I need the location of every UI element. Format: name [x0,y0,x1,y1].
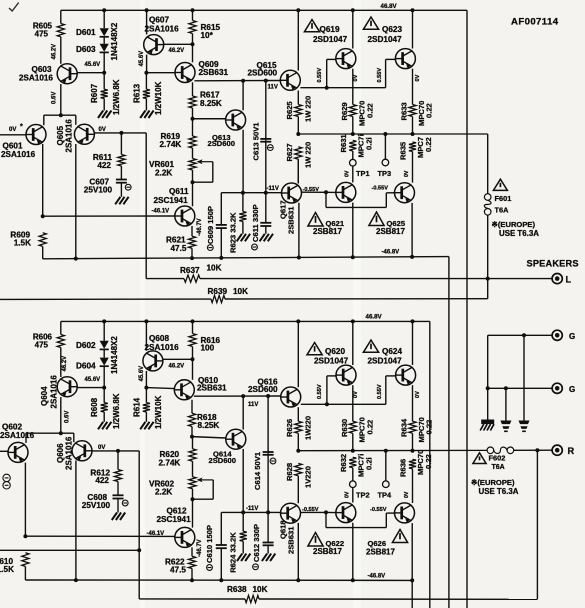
svg-text:0.55V: 0.55V [377,68,383,83]
svg-text:*: * [20,124,23,131]
wire diode string to R607 [103,52,105,89]
wire Q608 emitter down [145,371,147,388]
svg-text:1/2W10K: 1/2W10K [154,81,163,115]
svg-text:2SD1047: 2SD1047 [314,357,349,366]
svg-text:2SB817: 2SB817 [366,548,395,557]
resistor R628 [295,463,302,475]
wire Q604 emitter down [60,397,62,433]
svg-text:F602: F602 [489,454,506,463]
transistor Q617 [282,183,302,203]
resistor R639 [211,295,225,302]
wire Q609 emitter to Q615 base [195,80,281,82]
ground chassis big [481,420,494,425]
wire R639 to output junction [225,298,488,300]
transistor Q601 [26,125,46,145]
svg-text:R624 33.2K: R624 33.2K [229,532,238,573]
resistor R638 [245,595,259,602]
wire Q621 emitter down [352,203,354,258]
wire Q622 base [326,511,336,513]
warning triangle Q622 [308,533,323,547]
svg-text:0.22: 0.22 [424,137,433,152]
transistor Q612 [192,499,194,527]
wire fuse F602 to R terminal [514,449,552,451]
svg-text:0V: 0V [404,491,410,498]
svg-text:2.74K: 2.74K [160,140,182,149]
svg-text:2SD600: 2SD600 [208,139,235,148]
svg-text:R630: R630 [340,419,349,437]
resistor R611 [120,133,122,155]
svg-text:2SB631: 2SB631 [287,206,296,234]
resistor R622 [191,547,193,556]
svg-text:D604: D604 [76,362,96,371]
wire Q614 base [192,437,226,438]
svg-text:R626: R626 [285,419,294,437]
wire feedback R639 [0,298,211,300]
svg-text:0V: 0V [415,391,421,398]
svg-text:TP3: TP3 [378,169,392,178]
wire to Q623 base [327,87,386,89]
svg-text:-0.55V: -0.55V [303,187,320,193]
resistor R634 [412,385,414,421]
wire Q615 collector up [297,10,299,70]
svg-text:Q601: Q601 [3,142,23,151]
resistor R607 [101,89,108,98]
wire Q605 emitter down [75,144,77,259]
svg-text:11V: 11V [268,85,278,91]
resistor R609 [39,233,46,247]
wire +46.8V top bus ch1 [61,9,467,11]
svg-text:2SB631: 2SB631 [197,384,227,393]
wire input L to Q601 base [0,134,26,136]
svg-text:2SD600: 2SD600 [248,385,278,394]
svg-text:Q624: Q624 [382,347,402,356]
transistor Q610 [174,380,194,400]
ground C612 [262,554,267,562]
svg-text:2SA1016: 2SA1016 [145,24,180,33]
resistor R606 [60,321,62,334]
wire Q618 emitter right [300,511,326,513]
resistor R624 [242,512,244,531]
warning triangle Q623 [363,17,378,29]
wire VR602 wiper [200,479,214,481]
capacitor C614 [267,396,269,452]
wire to Q624 base [327,403,386,405]
svg-text:8.25K: 8.25K [200,99,222,108]
wire Q616 collector up [297,321,299,387]
svg-text:R634: R634 [400,418,409,437]
svg-text:R614: R614 [133,397,142,417]
svg-text:C610 150P: C610 150P [205,525,214,563]
test point TP2 [350,481,357,488]
svg-text:0.6V: 0.6V [52,92,58,104]
wire ground bus G2 [488,387,552,389]
ground R608 [98,422,103,430]
svg-text:46.2V: 46.2V [169,363,185,369]
svg-text:2SA1016: 2SA1016 [19,74,54,83]
svg-text:47.5: 47.5 [170,565,186,574]
svg-text:R608: R608 [90,397,99,417]
svg-text:0.55V: 0.55V [317,68,323,83]
svg-text:45.6V: 45.6V [85,377,101,383]
svg-text:10K: 10K [233,287,248,296]
svg-text:Q611: Q611 [169,187,189,196]
svg-text:R629: R629 [340,102,349,120]
resistor R633 [412,69,414,105]
svg-text:R639: R639 [208,287,228,296]
svg-text:2SA1016: 2SA1016 [0,431,35,440]
svg-text:2SB631: 2SB631 [199,68,229,77]
resistor R617 [192,82,194,96]
svg-text:45.6V: 45.6V [85,62,101,68]
resistor R627 [295,147,302,159]
wire Q608 base to R616 node [163,358,192,360]
wire Q625 emitter down [411,203,413,257]
wire VR601 wiper [200,161,213,163]
ground R614 [140,422,145,430]
svg-text:2.2K: 2.2K [155,169,172,178]
transistor Q607 [144,35,164,55]
svg-text:0V: 0V [345,491,351,498]
svg-text:USE T6.3A: USE T6.3A [479,487,519,496]
wire Q623 collector up [412,10,414,48]
wire Q622 emitter down [352,523,354,581]
wire Q613 base [193,118,226,120]
wire Q616 emitter right [301,403,327,405]
wire Q615 emitter right [300,87,326,89]
svg-text:R: R [568,446,575,456]
warning triangle Q621 [308,213,323,227]
input jack symbol [3,474,10,481]
svg-text:0V: 0V [98,445,105,451]
svg-text:2SD600: 2SD600 [248,69,278,78]
svg-text:1W 220: 1W 220 [304,96,313,122]
svg-text:0.22: 0.22 [424,454,433,469]
terminal speaker L [552,274,562,284]
svg-text:0V: 0V [99,127,106,133]
warning triangle F601 [493,179,507,190]
svg-text:R625: R625 [285,101,294,120]
svg-text:G: G [569,385,575,394]
svg-text:1/2W10K: 1/2W10K [154,395,163,429]
svg-text:2SB817: 2SB817 [376,227,405,236]
svg-text:1W220: 1W220 [304,416,313,440]
wire +46.8V rail down right [466,10,468,608]
svg-text:-46.1V: -46.1V [147,531,165,537]
diode D604 [100,358,109,366]
svg-text:2SB817: 2SB817 [313,547,342,556]
svg-text:※(EUROPE): ※(EUROPE) [492,220,536,229]
svg-text:R623 33.2K: R623 33.2K [229,212,238,253]
wire -11V node [221,192,281,194]
svg-text:2SA1016: 2SA1016 [50,375,59,409]
wire Q607 emitter down [146,55,148,73]
svg-text:R637: R637 [180,266,200,275]
wire Q614 collector up [242,396,244,429]
svg-text:-0.55V: -0.55V [372,186,389,192]
svg-text:0.55V: 0.55V [377,384,383,399]
wire Q619 collector up [352,10,354,48]
resistor R637 [184,275,200,282]
warning triangle Q620 [307,343,322,355]
svg-text:47.5: 47.5 [171,244,187,253]
svg-text:C611 330P: C611 330P [251,204,260,242]
wire Q603 emitter down [60,84,62,115]
scan artifact top-left [9,3,19,12]
resistor R623 [242,193,244,212]
wire +46.8V rail ch2 down [429,321,431,608]
wire Q610 collector up [192,359,194,380]
warning triangle Q624 [363,340,378,352]
warning triangle F602 [473,453,486,464]
svg-text:1N4148X2: 1N4148X2 [110,336,119,374]
svg-text:46.8V: 46.8V [381,3,398,10]
transistor Q604 [57,377,77,397]
resistor R615 [192,10,194,20]
wire mid bus ch1 [298,133,487,135]
svg-text:D601: D601 [76,28,96,37]
wire -46.8V rail down [448,257,450,608]
svg-text:TP1: TP1 [356,169,370,178]
wire ground bus G1 [488,334,552,336]
wire Q610 base [146,388,174,389]
svg-text:46.2V: 46.2V [169,48,185,54]
svg-text:-46.7V: -46.7V [197,218,203,236]
svg-text:AF007114: AF007114 [511,17,559,28]
wire Q617 bottom down [298,203,300,258]
svg-text:Q619: Q619 [320,25,340,34]
wire output L to speaker [200,278,552,280]
wire Q611 base [43,215,175,217]
ground C608 [117,499,119,513]
capacitor C613 [265,81,267,139]
wire Q617 emitter right [301,191,326,193]
svg-text:0.2i: 0.2i [365,137,374,150]
wire Q607 base to R615 node [164,43,193,45]
svg-text:8.25K: 8.25K [198,421,220,430]
wire Q609 base [146,72,175,74]
svg-text:2.74K: 2.74K [159,459,181,468]
svg-text:R636: R636 [399,459,408,477]
svg-text:475: 475 [35,341,49,350]
diode D602 [100,341,109,349]
wire Q607 collector to bus [146,10,148,34]
transistor Q625 [395,183,415,203]
wire Q604 base to diodes [77,387,104,389]
ground R623 [237,234,242,242]
resistor R635 [409,142,416,152]
svg-text:10K: 10K [253,585,268,594]
svg-text:45.6V: 45.6V [139,51,145,67]
svg-text:TP4: TP4 [378,490,392,499]
svg-text:C609 150P: C609 150P [206,206,215,244]
terminal G upper [552,330,562,340]
warning triangle Q619 [304,20,319,32]
svg-text:F601: F601 [495,194,512,203]
svg-text:2SB631: 2SB631 [287,526,296,554]
svg-text:R633: R633 [400,102,409,120]
resistor R631 [349,140,356,151]
svg-text:1.5K: 1.5K [0,565,14,574]
resistor R612 [117,451,119,470]
svg-text:2SA1016: 2SA1016 [1,150,36,159]
resistor R629 [352,69,354,105]
svg-text:1.5K: 1.5K [14,239,31,248]
svg-text:R627: R627 [285,143,294,161]
transistor Q613 [226,110,246,130]
svg-text:D603: D603 [76,45,96,54]
svg-text:R607: R607 [90,83,99,103]
svg-text:1/2W6.8K: 1/2W6.8K [112,79,121,115]
svg-text:-11V: -11V [246,506,258,512]
svg-text:C613 50V1: C613 50V1 [252,122,261,161]
svg-text:0.22: 0.22 [425,103,434,118]
svg-text:T6A: T6A [495,205,510,214]
transistor Q603 [57,64,77,84]
wire input R to Q602 base [0,450,8,452]
svg-text:D602: D602 [76,341,96,350]
capacitor C611 [265,193,267,223]
wire Q613 emitter down to -11V wire [242,130,244,193]
svg-text:0V: 0V [415,74,421,81]
resistor R605 [60,10,62,23]
svg-text:Q623: Q623 [382,25,402,34]
wire -11V node ch2 [221,511,281,513]
svg-text:0.6V: 0.6V [64,411,70,423]
svg-text:2SD1047: 2SD1047 [368,35,403,44]
ground C611 [260,234,265,242]
svg-text:100: 100 [201,343,215,352]
svg-text:T6A: T6A [492,464,505,471]
svg-text:2SA1016: 2SA1016 [145,343,180,352]
wire feedback down to R637 [145,133,147,279]
transistor Q624 [396,365,416,385]
test point TP1 [350,159,357,166]
wire output L with R637 [146,278,184,280]
svg-text:G: G [569,332,575,341]
svg-text:2SA1016: 2SA1016 [65,119,74,153]
resistor R614 [145,388,147,403]
svg-text:Q620: Q620 [325,347,345,356]
svg-text:R638: R638 [227,585,247,594]
wire 0V node to R611 and feedback corner [94,132,146,134]
wire mid bus ch1 to fuse corner [487,134,489,194]
svg-text:2SC1941: 2SC1941 [154,196,189,205]
wire diodes to R608 [103,366,105,402]
potentiometer VR601 [189,159,196,171]
wire Q620 collector up [352,321,354,365]
diode D603 [100,44,109,52]
resistor R626 [297,407,299,421]
wire -46.8V bus ch1 [43,257,449,259]
wire Q610 emitter to Q616 base [194,395,281,397]
potentiometer VR602 [189,477,196,489]
svg-text:0.22: 0.22 [425,420,434,435]
warning triangle Q625 [369,212,384,226]
svg-text:2SA1016: 2SA1016 [65,436,74,470]
svg-text:0V: 0V [353,391,359,398]
resistor R625 [297,91,299,105]
svg-text:2SD600: 2SD600 [209,456,236,465]
wire Q602 emitter down [24,463,26,537]
wire 0V node ch2 to R612 and corner [92,450,139,452]
resistor R616 [192,321,194,333]
transistor Q602 [8,442,28,462]
svg-text:2SB817: 2SB817 [313,227,342,236]
wire Q621 base [326,191,336,193]
resistor R608 [101,403,108,412]
diode D601 [100,28,109,36]
resistor R620 [192,437,194,449]
wire mid bus ch2 [298,449,487,451]
svg-text:※(EUROPE): ※(EUROPE) [471,478,515,487]
transistor Q608 [143,351,163,371]
terminal speaker R [552,445,562,455]
svg-text:2SD1047: 2SD1047 [368,357,403,366]
fuse F601 [484,194,491,201]
wire fuse F601 to L output [487,215,489,279]
wire Q626 emitter down to bottom edge [411,523,413,608]
capacitor C612 [267,512,269,542]
test point TP4 [385,451,387,481]
svg-text:0.22: 0.22 [366,420,375,435]
svg-text:0V: 0V [353,74,359,81]
ground small A [500,421,511,425]
wire diode column [103,10,105,28]
svg-text:46.2V: 46.2V [62,356,68,372]
svg-text:TP2: TP2 [356,490,370,499]
wire Q601-Q605 collector join [44,114,76,116]
svg-text:-11V: -11V [267,186,279,192]
svg-text:L: L [566,274,572,284]
svg-text:C612 330P: C612 330P [252,524,261,562]
wire Q620 base jog [326,376,328,404]
ground R607 [98,111,103,119]
svg-text:0.22: 0.22 [366,103,375,118]
transistor Q620 [336,365,356,385]
svg-text:-0.55V: -0.55V [370,507,387,513]
transistor Q623 [395,49,415,69]
svg-text:-46.7V: -46.7V [197,539,203,557]
capacitor C609 [220,193,222,225]
transistor Q605 [74,124,94,144]
wire base jog to Q625 [325,192,327,207]
svg-text:2SC1941: 2SC1941 [157,515,192,524]
ground small B [519,421,530,425]
svg-text:0V: 0V [404,170,410,177]
svg-text:0.55V: 0.55V [317,384,323,399]
svg-text:Q607: Q607 [149,15,169,24]
svg-text:R631: R631 [339,134,348,153]
terminal G lower [552,383,562,393]
wire R output down to R638 [536,450,538,599]
transistor Q614 [226,429,246,449]
wire -46.8V bus ch2 [25,579,412,581]
resistor R618 [191,400,193,414]
wire Q601 emitter down [42,144,44,216]
svg-text:1V220: 1V220 [304,466,313,488]
ground C607 [120,183,122,197]
svg-text:SPEAKERS: SPEAKERS [527,259,579,269]
svg-text:0.2i: 0.2i [365,457,374,470]
wire Q612 base [25,535,175,537]
svg-text:10*: 10* [201,31,214,40]
svg-text:Q604: Q604 [40,386,49,406]
svg-text:25V100: 25V100 [84,186,113,195]
svg-text:R635: R635 [399,141,408,160]
warning triangle Q626 [392,530,407,543]
wire Q613 collector up [242,81,244,111]
svg-text:-46.8V: -46.8V [382,250,400,256]
